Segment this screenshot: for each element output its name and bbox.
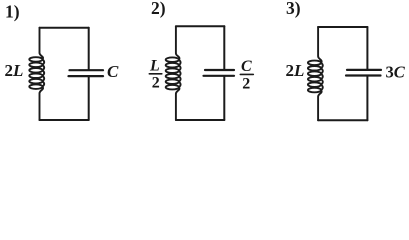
wire: circuit 1 top side bbox=[40, 27, 89, 29]
wire: circuit 2 right side bottom bbox=[223, 76, 225, 120]
capacitor 3C (circuit 3) top plate bbox=[347, 69, 381, 71]
value label 2L (circuit 3) bbox=[286, 61, 305, 80]
value label 3C (circuit 3) bbox=[386, 62, 406, 81]
capacitor C (circuit 1) top plate bbox=[70, 69, 104, 71]
svg-text:2: 2 bbox=[152, 75, 160, 92]
svg-text:2): 2) bbox=[151, 0, 166, 18]
wire: circuit 3 top side bbox=[318, 26, 367, 28]
svg-text:C: C bbox=[107, 62, 119, 81]
value label L/2 (circuit 2): numerator L bbox=[149, 58, 160, 75]
svg-text:3C: 3C bbox=[386, 62, 406, 81]
wire: circuit 3 right side top (to capacitor) bbox=[366, 27, 368, 70]
node label 1) bbox=[5, 2, 20, 22]
svg-text:3): 3) bbox=[286, 0, 301, 18]
capacitor C/2 (circuit 2) top plate bbox=[205, 69, 234, 71]
wire: circuit 1 right side top (to capacitor) bbox=[88, 28, 90, 70]
svg-text:C: C bbox=[241, 58, 252, 75]
wire: circuit 3 bottom side bbox=[318, 119, 367, 121]
inductor L/2 (circuit 2, left branch with lead wires) bbox=[166, 26, 181, 120]
wire: circuit 1 bottom side bbox=[40, 119, 89, 121]
svg-text:2L: 2L bbox=[286, 61, 305, 80]
wire: circuit 2 bottom side bbox=[176, 119, 224, 121]
inductor 2L (circuit 1, left branch with lead wires) bbox=[29, 28, 44, 120]
value label C/2 (circuit 2): fraction bar bbox=[240, 73, 253, 75]
value label 2L (circuit 1) bbox=[5, 61, 24, 80]
wire: circuit 3 right side bottom bbox=[366, 76, 368, 121]
svg-text:2: 2 bbox=[242, 76, 250, 93]
node label 2) bbox=[151, 0, 166, 18]
svg-text:L: L bbox=[149, 58, 160, 75]
value label C (circuit 1) bbox=[107, 62, 119, 81]
value label C/2 (circuit 2): numerator C bbox=[241, 58, 252, 75]
wire: circuit 1 right side bottom bbox=[88, 76, 90, 120]
capacitor 3C (circuit 3) bottom plate bbox=[346, 74, 381, 76]
svg-text:2L: 2L bbox=[5, 61, 24, 80]
node label 3) bbox=[286, 0, 301, 18]
capacitor C/2 (circuit 2) bottom plate bbox=[204, 75, 235, 77]
wire: circuit 2 top side bbox=[176, 25, 224, 27]
value label L/2 (circuit 2): fraction bar bbox=[149, 73, 162, 75]
svg-text:1): 1) bbox=[5, 2, 20, 22]
value label L/2 (circuit 2): denominator 2 bbox=[152, 75, 160, 92]
value label C/2 (circuit 2): denominator 2 bbox=[242, 76, 250, 93]
wire: circuit 2 right side top (to capacitor) bbox=[223, 26, 225, 70]
inductor 2L (circuit 3, left branch with lead wires) bbox=[308, 27, 323, 120]
capacitor C (circuit 1) bottom plate bbox=[69, 75, 104, 77]
